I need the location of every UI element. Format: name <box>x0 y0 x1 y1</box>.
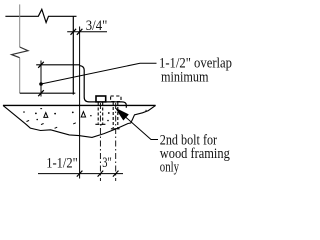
wire left wall line lower <box>19 58 21 93</box>
bolt 2 end dash <box>111 128 120 130</box>
bolt 1 shank dashed <box>98 103 103 124</box>
tick bottom at 100.4 <box>98 171 104 177</box>
tick bottom at 79.6 <box>77 171 83 177</box>
bolt 1 end dash <box>95 123 105 125</box>
wire left wall break <box>12 47 28 58</box>
tick at 79.6 <box>77 29 83 35</box>
aggregate triangle 1 <box>44 113 48 118</box>
aggregate dots <box>23 110 146 122</box>
aggregate chevrons <box>27 120 104 128</box>
bolt 2 centerline <box>115 103 117 181</box>
wire wall right face <box>72 16 74 94</box>
wire bottom dimension line <box>38 173 123 175</box>
wire sheathing face extension line <box>79 27 81 179</box>
wire left wall line <box>19 4 21 47</box>
bolt 2 shank dashed <box>113 102 118 128</box>
wire leader to 2nd bolt label <box>118 110 158 139</box>
bolt 2 ghost head dashed <box>111 96 121 102</box>
svg-text:minimum: minimum <box>161 70 209 86</box>
wire overlap top line <box>36 64 79 66</box>
wire 3/4 dimension line <box>67 31 107 33</box>
svg-text:only: only <box>160 159 180 175</box>
tick bottom at 115.7 <box>113 171 119 177</box>
wire overlap dimension line <box>40 61 42 97</box>
svg-text:3": 3" <box>102 155 112 171</box>
tick overlap top <box>38 62 44 68</box>
svg-text:1-1/2": 1-1/2" <box>46 155 78 171</box>
concrete surface line <box>3 104 156 106</box>
aggregate triangle 2 <box>81 112 85 117</box>
node leader dot <box>39 82 43 86</box>
strap anchor plate <box>80 66 127 108</box>
tick overlap bottom <box>38 90 44 96</box>
wire bottom plate line <box>20 92 76 94</box>
bolt 1 head <box>96 96 106 102</box>
wire leader to overlap label <box>41 63 157 84</box>
bolt 1 centerline <box>99 103 101 181</box>
concrete outline <box>3 105 156 137</box>
arrowhead 2nd bolt <box>116 109 128 120</box>
wire top cut line with break <box>5 9 76 22</box>
svg-text:3/4": 3/4" <box>86 18 108 34</box>
tick at 73.3 <box>71 29 77 35</box>
